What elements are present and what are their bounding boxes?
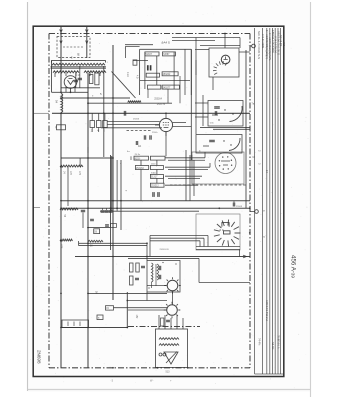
magic eye envelope	[221, 55, 230, 64]
wire pair y=245.6	[79, 245, 147, 247]
trio terminal boxes under bus	[90, 121, 95, 128]
texture cap x=216 y=113	[214, 111, 216, 115]
wire y=258.2	[128, 257, 199, 259]
junction dots top	[60, 33, 62, 35]
mains selector dashed box	[57, 37, 90, 58]
magic eye wires	[195, 49, 209, 51]
svg-text:253212: 253212	[151, 186, 159, 188]
wire y=158	[61, 157, 113, 159]
padder cap x=83	[81, 209, 85, 211]
IF2 caps	[158, 266, 160, 270]
output tube box bottom	[196, 246, 240, 248]
chassis boundary left dash-dot	[48, 34, 50, 368]
output tube socket box	[192, 152, 244, 184]
svg-text:W ·: W ·	[150, 379, 154, 383]
transformer core lines	[51, 66, 107, 68]
svg-text:4π: 4π	[127, 151, 130, 153]
caps near converter	[143, 135, 145, 139]
output tube nest wires	[150, 235, 208, 237]
output transformer winding 1	[159, 338, 179, 340]
nest wires to output socket	[165, 157, 205, 159]
vertical wire x=121	[120, 160, 122, 230]
transformer left leg wire	[51, 60, 53, 92]
caps cluster 444	[101, 210, 105, 212]
IF2 left column cap C2	[136, 263, 139, 272]
mains selector box bottom	[62, 320, 89, 328]
svg-text:Sch 4L 4-7/ O RF S-S: Sch 4L 4-7/ O RF S-S	[257, 31, 261, 59]
svg-text:76 BF 94. A: 76 BF 94. A	[276, 335, 280, 349]
IF2 coil second	[157, 264, 158, 280]
svg-text:‚6A4 S: ‚6A4 S	[161, 41, 170, 45]
junction dots bus l	[87, 97, 89, 99]
magic eye feed from chassis top	[224, 34, 226, 45]
svg-text:2N698: 2N698	[37, 350, 42, 364]
parts table bottom rule	[255, 373, 284, 375]
svg-text:25163: 25163	[133, 119, 140, 121]
top wire y=42.5 partial	[125, 44, 153, 46]
riser to magic eye	[195, 38, 197, 50]
output box ground stubs	[159, 367, 161, 369]
bus resistor box 51	[57, 125, 66, 130]
output transformer winding 2	[159, 344, 179, 346]
IF tube2 cap	[214, 106, 220, 108]
IF1 resistor box R2	[163, 52, 176, 56]
rectifier pin wires	[70, 88, 72, 92]
tube connect wires	[172, 291, 174, 305]
wire y=45.5 right	[200, 45, 240, 47]
IF1 resistor box R6	[162, 85, 179, 89]
resistor box 59	[94, 229, 100, 234]
magic eye radiating ticks	[213, 61, 227, 74]
resistor row y=165.5 box1	[135, 166, 148, 170]
svg-text:M: M	[253, 156, 255, 159]
parts table column rules	[254, 28, 256, 374]
svg-text:25·3ıı: 25·3ıı	[135, 154, 141, 156]
output tube anode box	[224, 231, 231, 234]
IF tube2 arc	[230, 106, 243, 122]
mains selector ticks	[67, 322, 69, 327]
svg-text:A B0 14 5 P10 2 d: A B0 14 5 P10 2 d	[265, 300, 269, 321]
main vertical bus C (x=113)	[112, 45, 114, 300]
cap on bus y=113 x=125	[123, 111, 125, 116]
svg-text:253.1 m: 253.1 m	[157, 104, 165, 106]
output tube radiating ticks	[214, 220, 241, 247]
svg-text:W 1: W 1	[282, 42, 286, 47]
IF1 resistor box R5	[148, 85, 161, 89]
antenna terminal arrow B	[85, 30, 88, 33]
chassis boundary right dash-dot	[249, 34, 251, 368]
demod tube small envelope	[167, 280, 178, 291]
extra caps texture near y150	[135, 141, 137, 145]
IF2 coil left	[152, 263, 154, 282]
speaker triangle	[164, 352, 178, 364]
chassis boundary top dash-dot	[49, 33, 250, 35]
svg-text:5·: 5·	[92, 96, 94, 98]
IF tube3 cap	[209, 139, 215, 141]
junction coil3	[60, 240, 62, 242]
cap resistor pair y=225	[105, 224, 109, 226]
transformer terminal stubs	[54, 73, 56, 77]
IF2 left column cap C3	[141, 265, 145, 267]
socket pin dots	[231, 165, 232, 166]
IF1 inner wires	[144, 52, 146, 89]
IF2 drop wire	[146, 292, 148, 301]
second tube ticks	[164, 302, 181, 319]
converter grid dashes	[163, 122, 169, 124]
terminal circle M	[255, 210, 259, 214]
texture verticals IF1 to bus	[147, 89, 149, 98]
selector contact arrow B	[86, 41, 88, 44]
rectifier filament	[68, 80, 74, 85]
IF1 resistor box R1	[145, 52, 159, 56]
IF tube2 inner dots	[224, 109, 225, 110]
bold electrolytic 10	[147, 65, 149, 70]
wire y=300.5	[127, 300, 167, 302]
svg-text:25163: 25163	[236, 206, 243, 208]
junction dots power rails	[60, 97, 62, 99]
trio stubs	[91, 113, 93, 120]
main horizontal bus y=200.7	[61, 200, 250, 202]
wire y=92.3 under rectifier	[52, 91, 89, 93]
nest verticals	[185, 150, 187, 201]
filter choke on bus (vertical squiggle)	[61, 94, 63, 113]
main horizontal bus y=113	[52, 112, 250, 114]
IF1 shield outline	[140, 49, 192, 95]
IF1 outer bracket	[126, 47, 140, 59]
top wire y=40.5	[172, 40, 215, 42]
svg-text:2516ı: 2516ı	[152, 132, 158, 134]
junction dots under rectifier	[60, 91, 62, 93]
svg-text:253202: 253202	[163, 74, 171, 76]
IF tube3 ticks	[203, 145, 209, 147]
left frame tick y=207	[34, 207, 41, 209]
antenna coupling squiggle y=241.5	[88, 240, 103, 242]
horizontal wire y=211	[100, 210, 199, 212]
nest wire doubles	[168, 159, 205, 161]
IF tube2 wires	[195, 102, 208, 104]
wire y=256.5 long	[75, 256, 250, 258]
IF tube3 arc	[229, 138, 240, 151]
junction dots texture	[112, 157, 114, 159]
wire y=127.6	[200, 127, 250, 129]
svg-text:253164: 253164	[154, 99, 162, 101]
antenna terminal arrow A	[60, 30, 63, 33]
wire y=307.7	[114, 307, 168, 309]
junction dots on bus 208	[218, 207, 220, 209]
converter vertical to rows	[165, 132, 167, 157]
junction on chassis line	[157, 367, 159, 369]
svg-text:S4 0%: S4 0%	[271, 342, 275, 350]
IF2 left column cap C1	[130, 263, 134, 272]
converter pin wires to terminal boxes	[107, 121, 160, 123]
stub from frame left to bus y=113	[34, 112, 50, 114]
vertical wire x=110.5	[110, 155, 112, 250]
resistor box 15	[106, 306, 114, 310]
svg-text:540377: 540377	[163, 87, 171, 89]
wire y=129.3	[213, 128, 250, 130]
svg-text:54: 54	[55, 100, 59, 104]
junction dots center	[112, 200, 114, 202]
terminal circle top	[252, 44, 256, 48]
oscillator coil 3	[60, 239, 73, 241]
transformer secondary winding right	[84, 71, 106, 73]
output tube drop wire	[238, 250, 240, 257]
svg-text:513: 513	[166, 371, 171, 374]
oscillator coil 1	[60, 165, 83, 167]
resistor row y=165.5 box2	[150, 166, 163, 170]
converter wires to right riser	[173, 122, 186, 124]
IF tube3 box	[196, 135, 242, 154]
output tube heater bracket	[222, 223, 229, 227]
main vertical bus B (x=87)	[86, 27, 88, 58]
vertical wire x=104	[103, 66, 105, 157]
smoothing capacitor stack x=76	[75, 73, 77, 88]
socket inner mark	[221, 161, 230, 165]
transformer top bracket	[52, 60, 106, 62]
texture cap x=234 y=201	[232, 203, 234, 207]
coil1 risers	[67, 167, 69, 206]
svg-text:74 4%: 74 4%	[258, 338, 262, 346]
svg-text:4.5·: 4.5·	[136, 75, 139, 79]
wire y=98	[61, 97, 130, 99]
resistor row y=156 box2	[150, 156, 165, 160]
feed caps	[166, 319, 170, 321]
riser x=131 rows	[130, 156, 132, 160]
wires under tube3	[191, 155, 193, 184]
selector contact arrow A	[60, 41, 62, 44]
svg-text:72887: 72887	[163, 54, 170, 56]
chassis dash-dot stub bottom-left section	[128, 326, 200, 328]
selector inner dashes	[63, 46, 84, 48]
wire pair y=243.3	[79, 242, 147, 244]
IF1 resistor box R4	[162, 72, 178, 76]
svg-text:253163: 253163	[136, 168, 144, 170]
output transformer box	[156, 329, 188, 368]
svg-text:C 5 41 0489: C 5 41 0489	[261, 34, 265, 49]
risers rows to bus	[140, 170, 142, 201]
second small tube envelope	[167, 305, 178, 316]
junction dots y256	[87, 256, 89, 258]
cap near 59	[90, 218, 94, 220]
svg-text:2Δ1·ı: 2Δ1·ı	[151, 163, 157, 166]
converter pin stubs	[155, 124, 159, 126]
svg-text:54Ωıı: 54Ωıı	[151, 173, 157, 175]
trimmer box left	[133, 60, 137, 65]
small box a	[97, 315, 103, 320]
oscillator coil squiggle y=101.5	[128, 101, 141, 103]
junction at coil1	[60, 166, 62, 168]
wire y=293.4	[88, 292, 167, 294]
vertical wire x=246 right	[245, 50, 247, 208]
wire 282.5	[199, 282, 250, 284]
magic eye box	[209, 48, 239, 77]
converter tube ECH21 envelope	[159, 118, 172, 131]
svg-text:25163·20: 25163·20	[160, 249, 170, 251]
IF tube3 inner dots	[223, 140, 224, 141]
transformer primary winding	[52, 63, 105, 65]
IF2 left column lower	[130, 276, 134, 285]
IF2 transformer box	[147, 261, 180, 293]
dial cord diagonal wire	[112, 72, 136, 99]
svg-text:8103·: 8103·	[135, 158, 141, 160]
output box feed wires	[158, 315, 160, 329]
dropper resistor box R10b	[95, 73, 99, 85]
IF tube2 box	[208, 101, 243, 127]
demod tube ticks	[164, 277, 181, 294]
oscillator coil 2	[60, 208, 78, 210]
main horizontal bus y=208.3	[61, 207, 250, 209]
wire y=103.2	[88, 102, 172, 104]
IF2 inner dots	[162, 262, 163, 263]
caps under rows	[152, 192, 154, 197]
output tube outline box	[196, 214, 240, 250]
svg-text:·˙·: ·˙·	[210, 31, 213, 34]
speaker terminals	[159, 353, 162, 356]
row vertical risers	[111, 156, 113, 211]
vertical riser x=191 tall	[190, 49, 192, 160]
wire y=87.8	[61, 87, 100, 89]
junction dots y327	[60, 327, 62, 329]
svg-text:41.3: 41.3	[126, 72, 129, 77]
resistor row y=174.4 box	[150, 174, 163, 178]
output tube socket circle	[215, 153, 236, 174]
smoothing capacitor stack x=80	[79, 66, 81, 88]
resistor row y=156 box1	[134, 156, 149, 160]
svg-text:4Ω: 4Ω	[138, 145, 141, 148]
transformer secondary winding left	[53, 71, 79, 73]
IF tube2 anode tick	[212, 114, 218, 116]
wire y=227.6	[88, 227, 110, 229]
dropper resistor box R10a	[89, 75, 93, 84]
rectifier tube AZ1 envelope	[64, 76, 77, 89]
resistor row y=183.2 box	[150, 183, 164, 187]
svg-text:51307: 51307	[146, 54, 153, 56]
magic eye inner	[224, 57, 228, 60]
bottom-left switch wire y=327.5	[61, 327, 128, 329]
chassis boundary bottom dash-dot	[49, 367, 250, 369]
vertical wire x=127 lower	[126, 292, 128, 328]
svg-text:456 A-39: 456 A-39	[290, 255, 297, 278]
IF1 resistor box R3	[146, 73, 159, 77]
main vertical bus A (x=61)	[60, 27, 62, 92]
dashed wire y=185	[170, 184, 246, 186]
top wire y=37.5	[172, 37, 240, 39]
arrow on y=256.5	[243, 255, 247, 258]
cap at x=88 y=150	[87, 147, 89, 153]
output tube grid dash	[220, 229, 225, 231]
IF2 inner wires	[151, 282, 153, 288]
AVC dashed wire y=130.5	[127, 130, 153, 132]
